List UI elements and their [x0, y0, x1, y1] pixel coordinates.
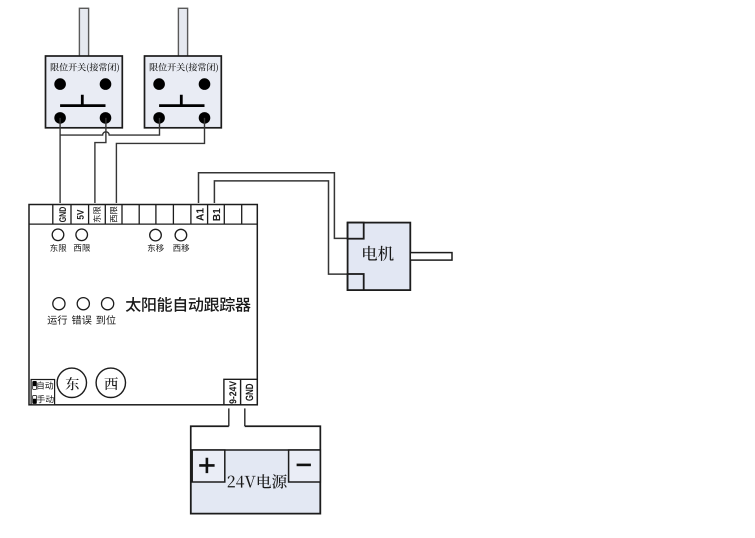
terminal label 9-24V: [229, 381, 236, 404]
controller title 太阳能自动跟踪器: [126, 297, 251, 312]
limit switch SW2 terminal dot bottom-right: [199, 112, 211, 124]
LED indicator 东移: [150, 229, 162, 241]
power supply minus sign: [297, 464, 311, 467]
limit switch SW2 NC contact symbol: [159, 95, 204, 106]
limit switch SW1 terminal dot bottom-right: [100, 112, 112, 124]
LED label 错误: [72, 315, 92, 324]
LED label 到位: [96, 315, 115, 324]
LED indicator 西限: [76, 229, 88, 241]
mode selector box: [31, 380, 54, 405]
power supply plus sign: [199, 458, 214, 473]
limit switch SW2 terminal dot top-left: [153, 78, 165, 90]
limit switch SW1 NC contact symbol: [60, 95, 105, 106]
limit switch SW2 terminal dot top-right: [199, 78, 211, 90]
button 西 circle: [96, 368, 125, 397]
limit switch SW2 terminal dot bottom-left: [153, 112, 165, 124]
terminal label GND: [59, 207, 66, 222]
wire A1 terminal to motor upper tab: [199, 173, 348, 239]
button 西 label: [105, 377, 118, 390]
motor upper terminal tab: [348, 223, 364, 239]
wire B1 terminal to motor lower tab: [214, 181, 347, 274]
LED label 西限: [74, 244, 90, 251]
limit switch SW2 actuator lever: [178, 8, 187, 57]
limit switch SW1 actuator lever: [79, 8, 88, 57]
limit switch SW1 label 限位开关(接常闭): [51, 63, 119, 73]
terminal label 5V: [77, 210, 84, 220]
power supply top gap between wires: [230, 425, 244, 429]
LED indicator 东限: [52, 229, 64, 241]
limit switch SW1 terminal dot top-left: [54, 78, 66, 90]
power supply inner line: [191, 449, 320, 451]
LED indicator 运行: [53, 298, 65, 310]
motor M body: [348, 223, 411, 291]
button 东 label: [66, 377, 79, 390]
terminal label GND bottom: [246, 384, 254, 401]
LED label 西移: [173, 244, 189, 252]
controller terminal strip: [29, 205, 257, 225]
power supply 24V body: [191, 426, 320, 513]
terminal label 东限: [93, 207, 101, 223]
motor lower terminal tab: [348, 274, 364, 290]
power supply top band: [192, 427, 320, 449]
terminal label B1: [213, 208, 220, 220]
LED label 运行: [48, 315, 68, 324]
mode switch icon 手动: [33, 395, 37, 403]
terminal label A1: [196, 208, 203, 220]
wire GND terminal to power supply -: [244, 408, 246, 426]
mode label 手动: [37, 395, 54, 403]
mode switch icon 自动: [33, 381, 37, 389]
wire SW1 bottom-left to GND terminal: [59, 118, 61, 203]
limit switch SW2 body: [145, 56, 222, 128]
LED label 东限: [50, 244, 66, 252]
controller board 太阳能自动跟踪器 outline: [29, 205, 257, 405]
power terminal block: [224, 379, 257, 405]
wire common link SW1 to SW2 bottom-left with hop: [60, 118, 159, 135]
power supply positive terminal box: [192, 450, 225, 482]
limit switch SW1 body: [46, 56, 123, 128]
terminal label 西限: [110, 206, 117, 222]
power supply negative terminal box: [289, 450, 321, 482]
wire 9-24V terminal to power supply +: [228, 408, 230, 426]
LED indicator 到位: [102, 298, 114, 310]
LED label 东移: [148, 244, 164, 252]
mode label 自动: [37, 381, 53, 389]
motor shaft: [410, 253, 452, 261]
LED indicator 错误: [77, 298, 89, 310]
limit switch SW1 terminal dot top-right: [100, 78, 112, 90]
wire SW1 bottom-right to 东限 terminal: [95, 118, 106, 203]
button 东 circle: [57, 368, 86, 397]
LED indicator 西移: [175, 229, 187, 241]
power supply label 24V电源: [228, 474, 287, 489]
motor label 电机: [363, 246, 394, 261]
limit switch SW1 terminal dot bottom-left: [54, 112, 66, 124]
wire SW2 bottom-right to 西限 terminal: [116, 118, 204, 203]
limit switch SW2 label 限位开关(接常闭): [150, 63, 218, 73]
